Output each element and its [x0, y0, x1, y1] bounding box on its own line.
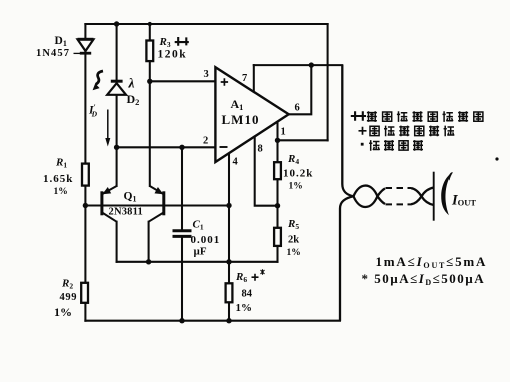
- legend marker plus: [359, 127, 367, 135]
- diode D1: [78, 39, 94, 53]
- legend line1 text blobs: [367, 111, 483, 122]
- resistor R3: [146, 41, 153, 62]
- legend marker dot: [361, 143, 364, 146]
- current arrow ID: [105, 110, 110, 147]
- svg-text:1%: 1%: [289, 182, 303, 192]
- legend line2 text blobs: [370, 126, 454, 137]
- wire emitter rail: [117, 261, 278, 263]
- twisted pair wire 2 (bottom-left to top-right): [340, 186, 434, 321]
- transistor Q1 right half: [149, 186, 164, 222]
- capacitor C1: [173, 231, 192, 237]
- wire R4 chain vertical: [276, 140, 278, 228]
- svg-text:1%: 1%: [287, 248, 301, 258]
- wire pin4 chain vertical: [228, 152, 230, 320]
- wire bottom rail: [85, 320, 340, 322]
- resistor R2: [81, 283, 88, 303]
- svg-text:4: 4: [233, 157, 239, 168]
- wire Q1 right lower lead: [148, 222, 150, 262]
- svg-text:120k: 120k: [158, 49, 188, 61]
- scan speck: [495, 157, 498, 160]
- svg-text:7: 7: [242, 73, 247, 84]
- wire right vertical from top rail: [327, 24, 329, 140]
- wire pin2 input: [117, 146, 216, 148]
- wire D2 branch vertical: [116, 24, 118, 186]
- legend line3 text blobs: [369, 140, 423, 151]
- svg-text:2: 2: [203, 136, 208, 147]
- svg-text:* 50µA≤ID≤500µA: * 50µA≤ID≤500µA: [362, 271, 486, 287]
- wire pin1 horizontal: [278, 139, 328, 141]
- resistor R6: [226, 283, 233, 302]
- svg-text:2k: 2k: [288, 235, 299, 246]
- wire left rail: [84, 24, 86, 321]
- wire pin3 input: [150, 80, 216, 82]
- svg-text:LM10: LM10: [222, 112, 260, 127]
- resistor R5: [274, 228, 281, 246]
- wire V+ feedback rail y65: [254, 64, 342, 66]
- wire pin7 stub: [253, 65, 255, 92]
- wire top rail: [85, 23, 327, 25]
- op-amp plus sign: [221, 78, 228, 85]
- svg-text:1N457: 1N457: [36, 48, 70, 59]
- svg-text:6: 6: [295, 103, 300, 114]
- twisted pair wire 1 (top-left to bottom-right): [342, 65, 433, 207]
- svg-text:1.65k: 1.65k: [43, 173, 73, 185]
- wire C1 branch vertical lower: [181, 238, 183, 321]
- svg-text:1%: 1%: [236, 302, 253, 314]
- svg-text:1%: 1%: [54, 187, 68, 197]
- wire C1 branch vertical upper: [181, 147, 183, 229]
- resistor R4: [274, 162, 281, 179]
- svg-text:10.2k: 10.2k: [283, 168, 313, 180]
- svg-text:84: 84: [242, 289, 253, 300]
- node junction dots: [83, 21, 314, 323]
- svg-text:3: 3: [204, 69, 209, 80]
- wire R5 bottom lead: [276, 246, 278, 262]
- wire pin6 output: [289, 65, 312, 114]
- svg-text:2N3811: 2N3811: [109, 207, 143, 218]
- wire Q1 left lower lead: [116, 222, 118, 262]
- light arrow into D2: [93, 71, 103, 90]
- legend marker double arrow: [351, 111, 366, 121]
- op-amp U1 triangle: [215, 67, 288, 162]
- svg-text:1: 1: [281, 127, 286, 138]
- wire pin8 stub: [255, 136, 278, 205]
- wire R3 branch vertical: [149, 24, 151, 186]
- svg-text:λ: λ: [128, 76, 135, 91]
- twisted pair end bracket: [433, 172, 435, 221]
- transistor Q1 left half: [102, 186, 117, 222]
- output brace: [441, 172, 452, 215]
- wire Q1 base rail: [85, 204, 229, 206]
- op-amp minus sign: [220, 146, 228, 148]
- svg-text:µF: µF: [194, 246, 207, 258]
- wire pin1 stub: [276, 122, 278, 141]
- svg-text:499: 499: [60, 292, 78, 303]
- svg-text:1%: 1%: [54, 305, 72, 319]
- photodiode D2: [107, 81, 126, 95]
- svg-text:8: 8: [258, 144, 263, 155]
- svg-text:0.001: 0.001: [191, 234, 221, 246]
- resistor R1: [82, 164, 89, 186]
